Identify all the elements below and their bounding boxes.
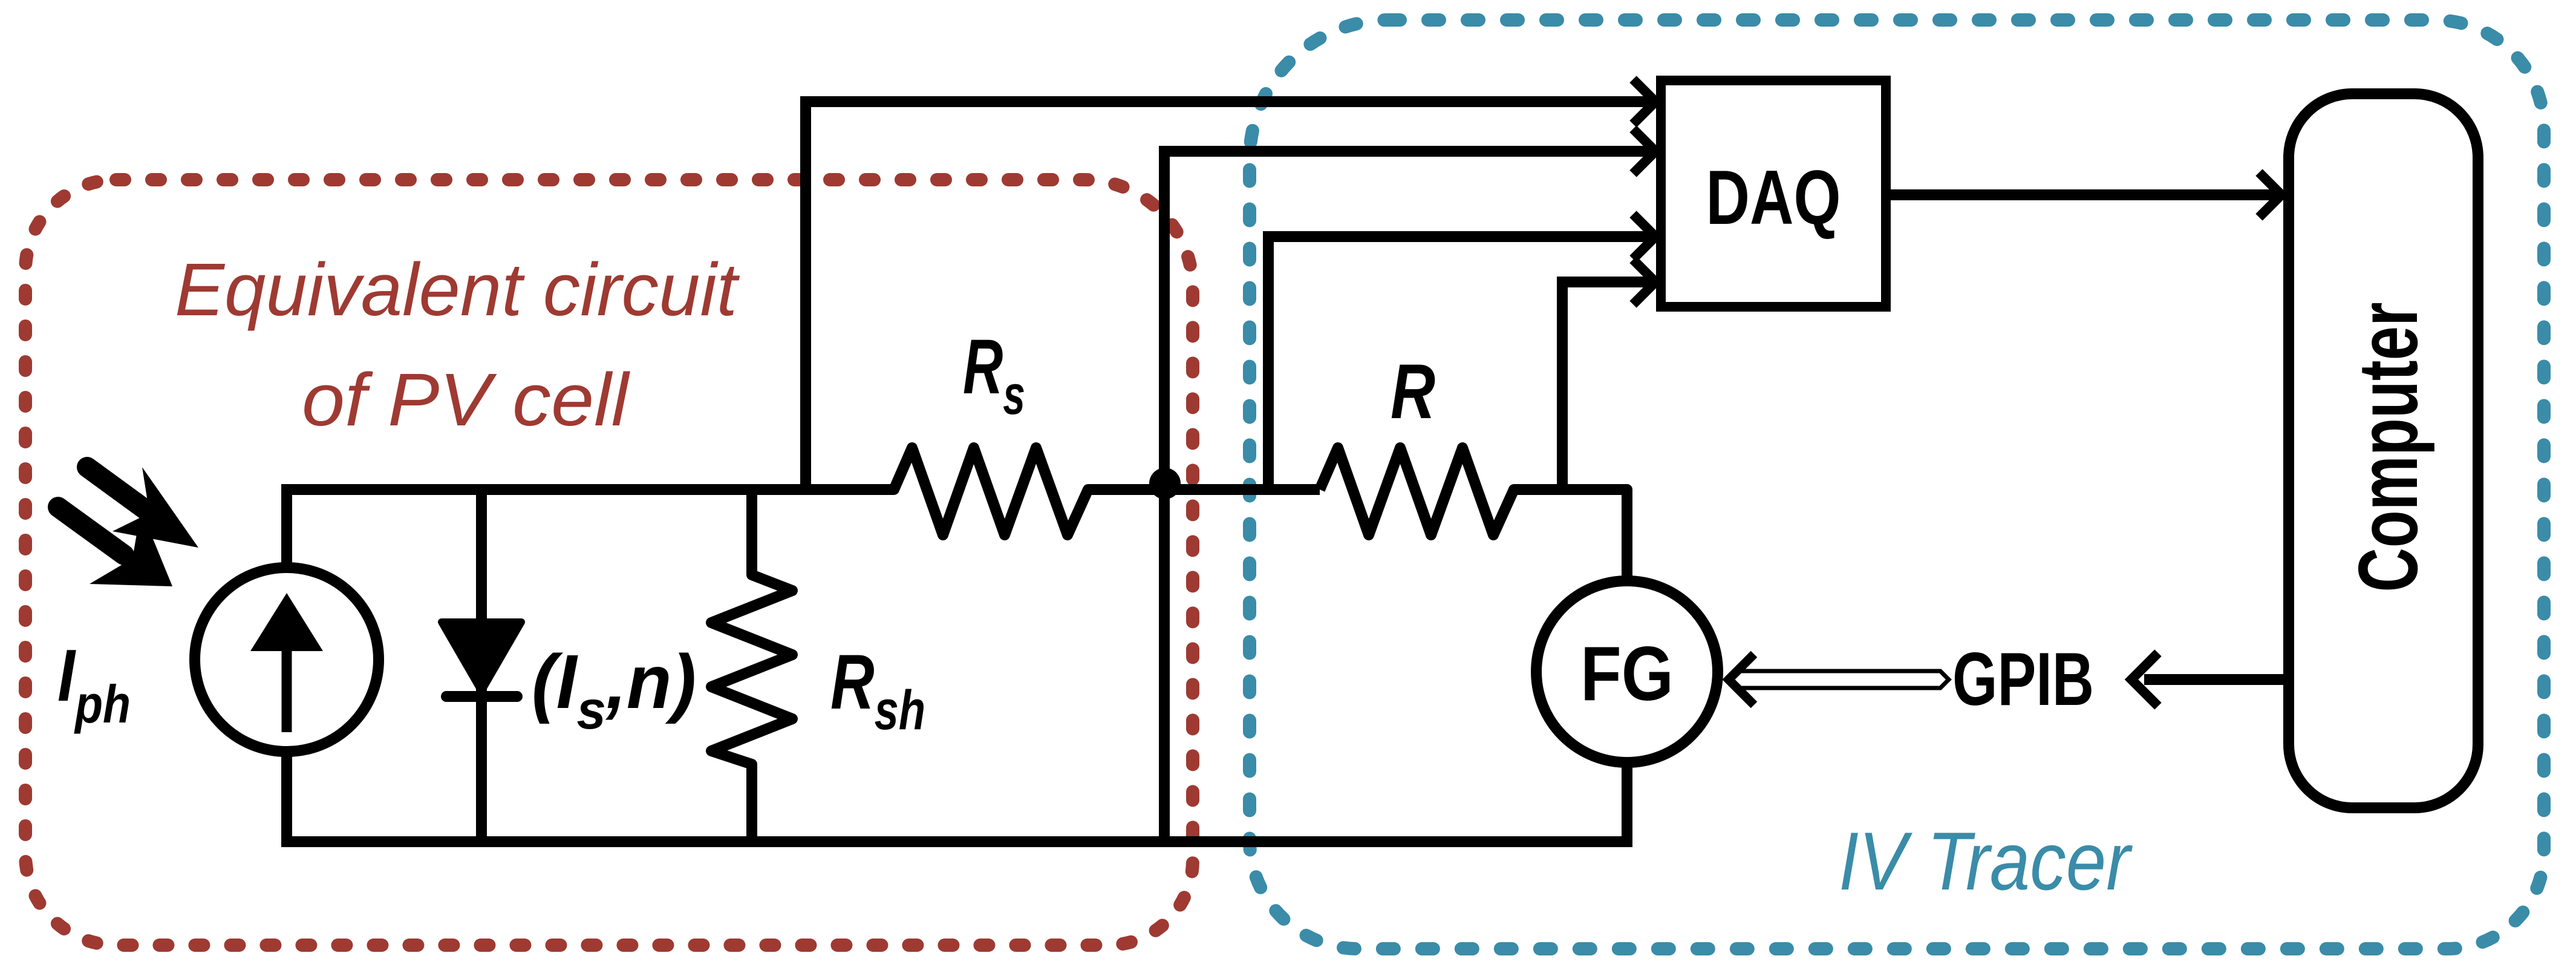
wire: sense wire 4 from right of R to DAQ xyxy=(1562,282,1649,490)
svg-text:DAQ: DAQ xyxy=(1706,154,1841,240)
wire: node C vertical to bottom rail and sense wire 2 to DAQ xyxy=(1164,151,1649,842)
svg-text:FG: FG xyxy=(1580,631,1674,716)
arrowhead into DAQ pin 3 xyxy=(1633,214,1655,259)
wire: Computer to GPIB xyxy=(2144,674,2284,685)
Computer box xyxy=(2289,94,2478,808)
wire: bottom rail xyxy=(281,763,1627,842)
light arrow 2 (lower photon arrow) xyxy=(58,507,172,586)
function generator FG circle xyxy=(1536,581,1718,762)
dashed boundary: Equivalent circuit of PV cell xyxy=(25,180,1193,945)
label: Equivalent circuit of PV cell xyxy=(175,249,740,442)
arrowhead into DAQ pin 2 xyxy=(1633,129,1655,174)
wire: sense wire 1 from node A to DAQ xyxy=(806,102,1649,490)
DAQ box xyxy=(1661,80,1886,307)
light arrow 1 (upper photon arrow) xyxy=(87,467,198,548)
node: junction dot between Rs and load xyxy=(1149,468,1181,499)
svg-text:R: R xyxy=(1391,349,1435,435)
double-line arrow GPIB to FG shaft xyxy=(1733,671,1949,688)
svg-text:Computer: Computer xyxy=(2341,303,2435,592)
arrowhead into DAQ pin 1 xyxy=(1633,79,1655,124)
diode D vertical wire xyxy=(476,490,487,842)
wire: current source bottom lead xyxy=(281,752,292,842)
arrowhead at FG (double-line arrow) xyxy=(1729,654,1754,705)
label: IV Tracer xyxy=(1839,815,2133,907)
current source Iph circle xyxy=(195,568,379,752)
wire: DAQ output to Computer xyxy=(1886,189,2275,200)
wire: current source top lead xyxy=(281,490,292,568)
current source arrow xyxy=(250,593,323,732)
resistor R zigzag and rail corner down to FG xyxy=(1320,448,1627,580)
diode D cathode bar xyxy=(446,691,517,702)
diode D triangle xyxy=(442,622,521,691)
svg-text:GPIB: GPIB xyxy=(1952,638,2094,721)
wire: top rail with resistor Rs zigzag xyxy=(281,448,1320,535)
arrowhead at GPIB (from Computer) xyxy=(2131,653,2158,706)
arrowhead into DAQ pin 4 xyxy=(1633,260,1655,304)
svg-text:of PV cell: of PV cell xyxy=(302,359,631,442)
wire: sense wire 3 from left of R to DAQ xyxy=(1268,237,1649,490)
arrowhead into Computer xyxy=(2259,172,2281,217)
dashed boundary: IV Tracer xyxy=(1250,20,2544,949)
svg-text:IV Tracer: IV Tracer xyxy=(1839,815,2133,907)
resistor Rsh with leads xyxy=(711,490,792,842)
svg-text:Equivalent circuit: Equivalent circuit xyxy=(175,249,740,332)
